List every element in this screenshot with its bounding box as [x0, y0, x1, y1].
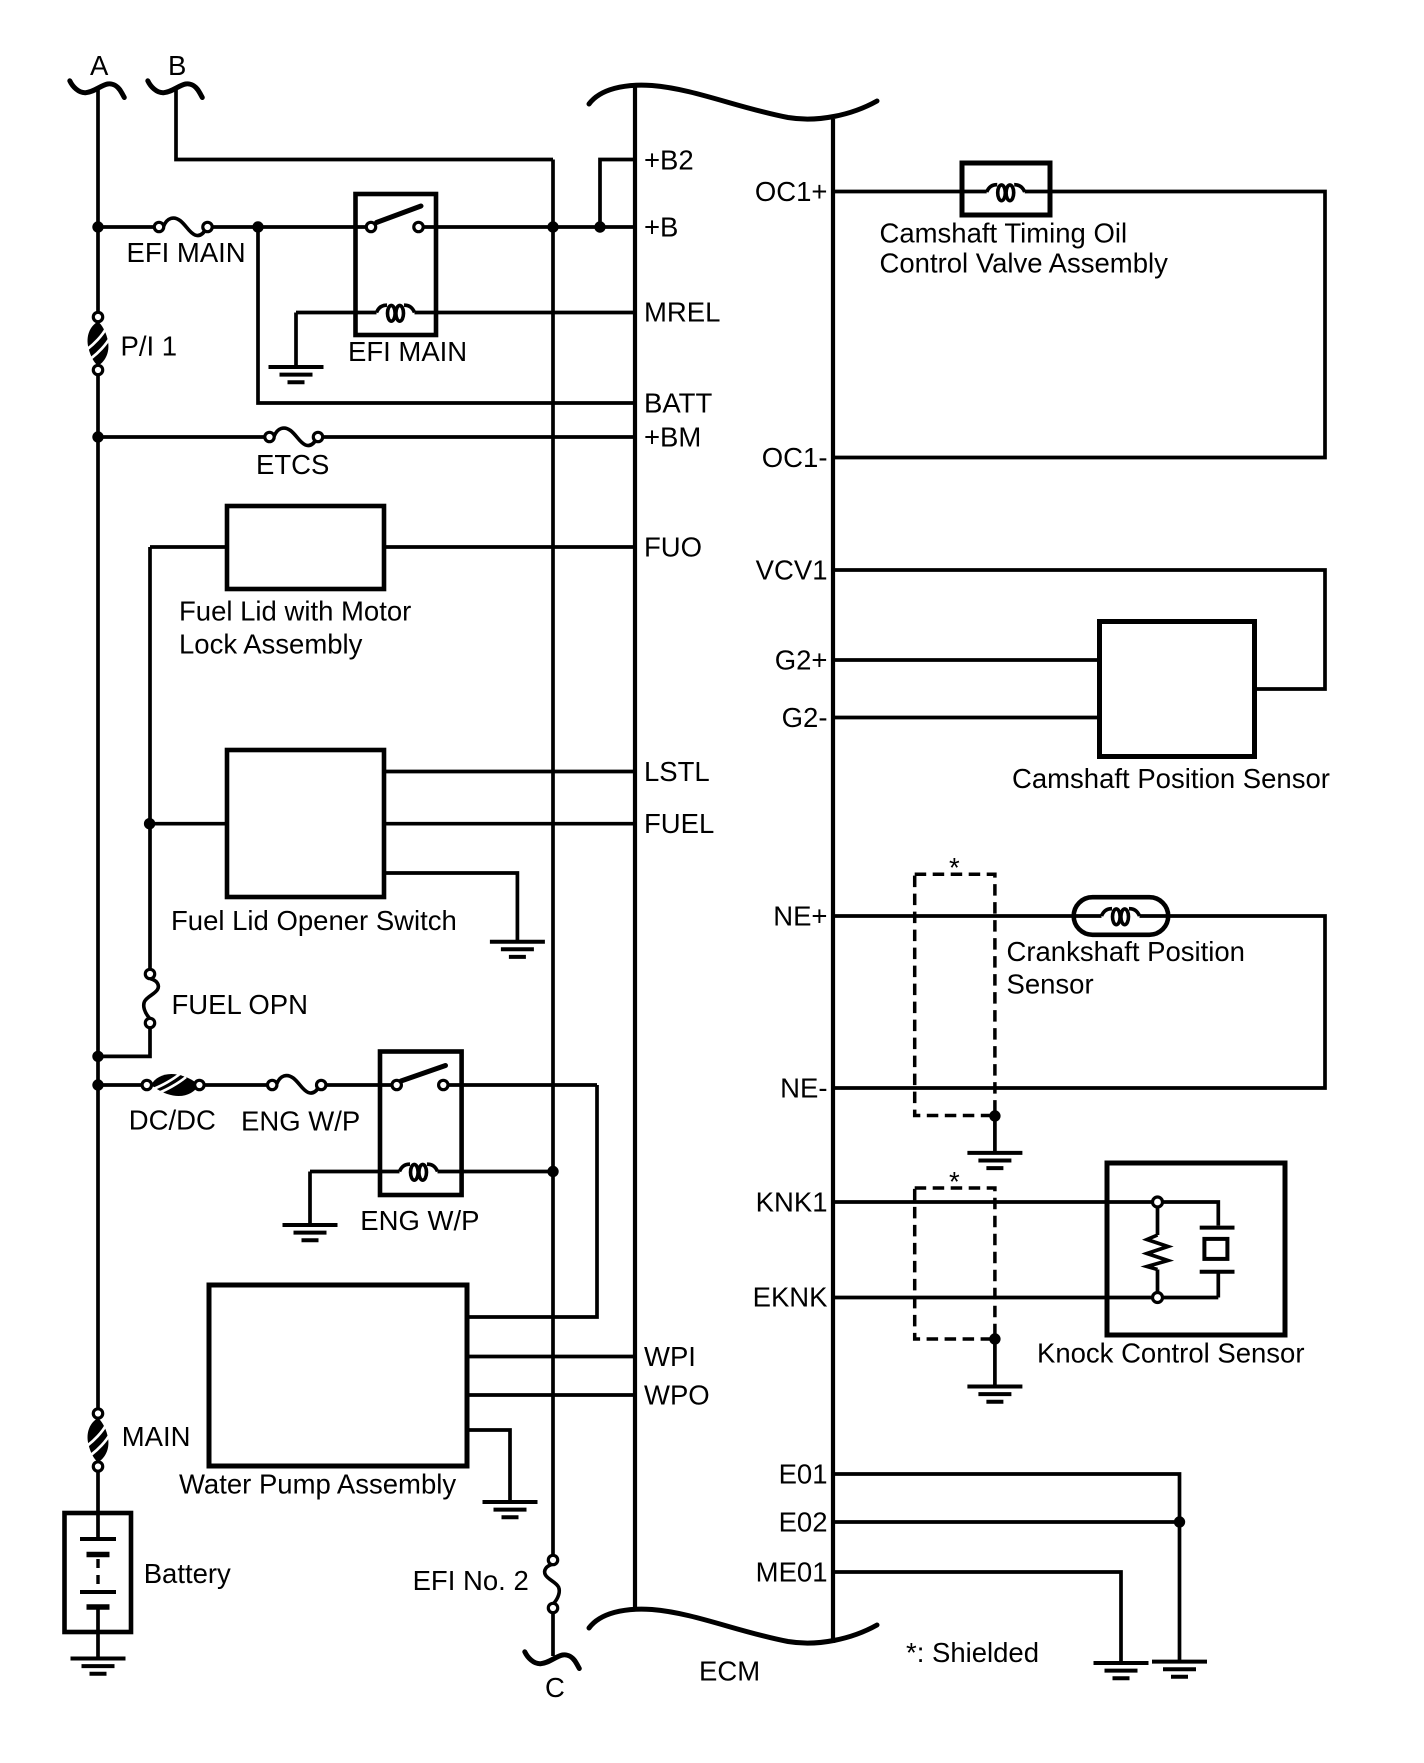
- svg-text:E02: E02: [779, 1507, 828, 1538]
- svg-text:E01: E01: [779, 1459, 828, 1490]
- svg-text:FUEL OPN: FUEL OPN: [172, 989, 309, 1020]
- svg-text:DC/DC: DC/DC: [129, 1105, 216, 1136]
- svg-text:C: C: [545, 1672, 565, 1703]
- svg-text:G2+: G2+: [775, 645, 828, 676]
- svg-text:NE-: NE-: [780, 1073, 827, 1104]
- svg-text:Knock Control Sensor: Knock Control Sensor: [1037, 1338, 1305, 1369]
- svg-text:KNK1: KNK1: [756, 1187, 828, 1218]
- svg-text:Control Valve Assembly: Control Valve Assembly: [880, 248, 1169, 279]
- svg-text:Fuel Lid Opener Switch: Fuel Lid Opener Switch: [171, 905, 457, 936]
- svg-text:G2-: G2-: [782, 702, 828, 733]
- svg-text:Water Pump Assembly: Water Pump Assembly: [179, 1469, 456, 1500]
- svg-text:WPO: WPO: [644, 1380, 710, 1411]
- svg-text:+B: +B: [644, 212, 678, 243]
- svg-text:P/I 1: P/I 1: [121, 331, 178, 362]
- svg-text:BATT: BATT: [644, 388, 712, 419]
- svg-text:*: Shielded: *: Shielded: [906, 1637, 1039, 1668]
- svg-text:LSTL: LSTL: [644, 756, 710, 787]
- svg-text:A: A: [90, 50, 109, 81]
- svg-text:Sensor: Sensor: [1007, 969, 1094, 1000]
- svg-text:Lock Assembly: Lock Assembly: [179, 629, 363, 660]
- svg-text:FUEL: FUEL: [644, 808, 714, 839]
- svg-text:EFI No. 2: EFI No. 2: [413, 1565, 529, 1596]
- svg-text:ECM: ECM: [699, 1656, 760, 1687]
- svg-text:Crankshaft Position: Crankshaft Position: [1007, 936, 1245, 967]
- svg-text:EKNK: EKNK: [753, 1282, 829, 1313]
- svg-text:EFI MAIN: EFI MAIN: [348, 336, 467, 367]
- svg-text:+BM: +BM: [644, 422, 701, 453]
- svg-text:Camshaft Timing Oil: Camshaft Timing Oil: [880, 218, 1128, 249]
- svg-text:+B2: +B2: [644, 145, 694, 176]
- svg-text:ETCS: ETCS: [256, 449, 329, 480]
- svg-text:ENG W/P: ENG W/P: [241, 1106, 360, 1137]
- svg-text:ME01: ME01: [756, 1557, 828, 1588]
- svg-text:*: *: [949, 852, 960, 883]
- svg-text:B: B: [168, 50, 186, 81]
- svg-text:OC1-: OC1-: [762, 442, 828, 473]
- svg-text:OC1+: OC1+: [755, 176, 828, 207]
- svg-text:VCV1: VCV1: [756, 555, 828, 586]
- svg-text:EFI MAIN: EFI MAIN: [127, 237, 246, 268]
- svg-text:NE+: NE+: [773, 901, 827, 932]
- svg-text:Battery: Battery: [144, 1558, 231, 1589]
- svg-text:MAIN: MAIN: [122, 1421, 191, 1452]
- svg-text:Fuel Lid with Motor: Fuel Lid with Motor: [179, 596, 411, 627]
- svg-text:ENG W/P: ENG W/P: [360, 1205, 479, 1236]
- svg-text:Camshaft Position Sensor: Camshaft Position Sensor: [1012, 763, 1330, 794]
- svg-text:*: *: [949, 1166, 960, 1197]
- svg-text:FUO: FUO: [644, 532, 702, 563]
- svg-text:WPI: WPI: [644, 1341, 696, 1372]
- svg-text:MREL: MREL: [644, 297, 720, 328]
